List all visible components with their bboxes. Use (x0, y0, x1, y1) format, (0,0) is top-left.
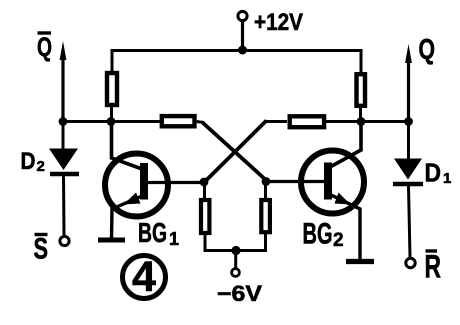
diode D1 (394, 159, 422, 180)
wire R2 bottom to node (359, 108, 362, 122)
junction dot right collector node (357, 117, 366, 126)
R-bar input terminal (406, 258, 415, 267)
D1 cathode bar (393, 182, 423, 187)
wire R6 bottom to -6V node (236, 234, 266, 251)
wire R5 bottom to -6V node (205, 235, 236, 251)
wire BG2 base node to R6 (264, 182, 267, 199)
resistor R6 (right base bias) (261, 200, 270, 232)
svg-text:R: R (425, 249, 442, 285)
-6V supply terminal (232, 269, 240, 277)
junction dot at +12V tap (238, 46, 247, 55)
wire BG1 base node to R5 (203, 182, 206, 198)
svg-text:+12V: +12V (254, 9, 303, 36)
junction dot left collector node (107, 117, 116, 126)
wire D2 to S-bar terminal (62, 176, 66, 235)
svg-text:−6V: −6V (217, 281, 262, 306)
D2 cathode bar (50, 172, 79, 177)
resistor R5 (left base bias) (201, 200, 209, 233)
BG1 emitter lead (112, 196, 143, 238)
resistor R4 (right coupling) (290, 116, 324, 127)
svg-text:D: D (425, 158, 442, 188)
BG2 base wire (266, 180, 324, 183)
BG1 emitter arrowhead (124, 193, 141, 205)
wire left node horizontal (62, 120, 161, 123)
wire R1 bottom to node (110, 107, 113, 122)
resistor R3 (left coupling) (162, 116, 195, 126)
junction dot Q node (404, 117, 413, 126)
BG2 ground (346, 259, 374, 264)
svg-text:BG: BG (138, 217, 167, 248)
svg-text:D: D (21, 148, 36, 175)
wire right node horizontal (361, 120, 409, 123)
BG1 base wire (148, 181, 204, 184)
wire R4 left stub (265, 120, 287, 123)
diode D2 (49, 149, 78, 171)
svg-text:1: 1 (169, 229, 179, 249)
Q-bar arrowhead (60, 41, 67, 60)
junction dot BG1 base node (200, 178, 209, 187)
BG2 collector lead (330, 122, 361, 168)
Q output arrow wire (407, 58, 410, 122)
top supply rail wire (112, 51, 361, 73)
figure number circle 4 (123, 256, 166, 299)
svg-text:Q: Q (37, 32, 52, 62)
BG2 emitter arrowhead (335, 193, 351, 205)
transistor BG2 circle (301, 151, 364, 214)
BG1 base bar (140, 163, 148, 200)
resistor R1 (left collector load) (107, 73, 117, 105)
junction dot Q-bar node (59, 117, 68, 126)
svg-text:4: 4 (132, 253, 156, 301)
+12V supply terminal (238, 11, 247, 20)
cross-coupling wire R4 to BG1 base (205, 121, 267, 183)
junction dot -6V node (231, 246, 240, 255)
svg-text:Q: Q (419, 34, 436, 66)
Q arrowhead (405, 44, 412, 63)
resistor R2 (right collector load) (357, 74, 366, 106)
wire -6V node to terminal (234, 251, 237, 269)
BG2 emitter lead (331, 195, 360, 260)
wire R3 right stub (197, 122, 205, 123)
BG1 ground (98, 238, 125, 243)
Q-bar overbar (38, 31, 52, 34)
S-bar input terminal (60, 236, 69, 245)
R-bar overbar (426, 249, 438, 252)
cross-coupling wire R3 to BG2 base (203, 123, 267, 181)
wire D1 to R-bar terminal (409, 186, 411, 257)
wire from +12V terminal to rail (241, 22, 244, 51)
wire Q node to diode D1 (407, 122, 410, 161)
BG2 base bar (324, 163, 332, 200)
Q-bar output arrow wire (61, 55, 64, 122)
svg-text:2: 2 (37, 158, 45, 175)
svg-text:BG: BG (303, 218, 333, 251)
wire Q-bar node to diode D2 (62, 122, 65, 151)
transistor BG1 circle (105, 154, 168, 217)
wire R4 right stub (326, 120, 361, 123)
svg-text:2: 2 (333, 230, 344, 251)
S-bar overbar (35, 233, 48, 236)
BG1 collector lead (112, 122, 143, 170)
svg-text:S: S (34, 233, 49, 266)
svg-text:1: 1 (443, 170, 451, 187)
junction dot BG2 base node (262, 177, 271, 186)
